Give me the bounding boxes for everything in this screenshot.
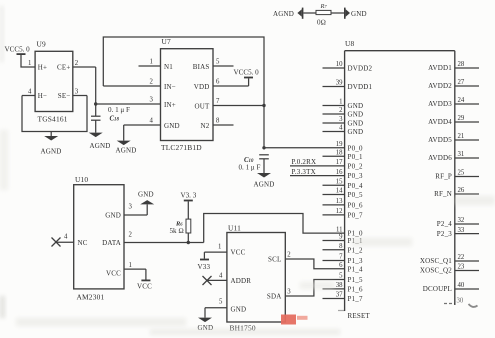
- pin 13 P0_6: [323, 198, 363, 209]
- svg-text:N2: N2: [201, 122, 210, 130]
- pin 22 XOSC_Q1: [420, 254, 479, 265]
- pin 18 P0_1: [323, 150, 363, 161]
- svg-text:10: 10: [336, 61, 343, 68]
- node junction CE+/IN+/C18: [94, 102, 97, 105]
- svg-text:NC: NC: [78, 239, 88, 247]
- wire: [303, 12, 316, 14]
- no-connect X (U10 pin4): [52, 238, 61, 247]
- label U9: [37, 40, 47, 49]
- svg-text:0. 1 μ F: 0. 1 μ F: [239, 164, 261, 172]
- svg-text:5: 5: [219, 299, 223, 306]
- svg-text:TGS4161: TGS4161: [38, 115, 68, 124]
- svg-text:4: 4: [219, 273, 223, 280]
- svg-text:8: 8: [339, 243, 343, 250]
- wire AGND drop: [50, 132, 52, 137]
- pin 1 VCC: [106, 262, 146, 278]
- no-connect X (U11 pin4): [203, 276, 212, 285]
- svg-text:P1_4: P1_4: [348, 265, 363, 273]
- svg-text:TLC271B1D: TLC271B1D: [161, 143, 202, 152]
- capacitor C10: [259, 155, 269, 173]
- svg-text:5k Ω: 5k Ω: [170, 227, 184, 235]
- pin 24 AVDD3: [428, 97, 479, 108]
- svg-text:U10: U10: [75, 175, 88, 184]
- svg-text:GND: GND: [138, 191, 154, 199]
- ground AGND (U7): [116, 141, 137, 155]
- svg-text:GND: GND: [348, 128, 364, 136]
- pin 39 DVDD1: [323, 80, 373, 91]
- svg-text:AGND: AGND: [90, 142, 111, 150]
- svg-text:DVDD2: DVDD2: [348, 65, 373, 73]
- svg-text:2: 2: [287, 252, 291, 259]
- net label GND: [351, 10, 367, 18]
- pin 1 H+: [28, 60, 47, 72]
- label AM2301: [77, 293, 105, 302]
- power V3.3 with pullup: [181, 192, 197, 202]
- svg-text:IN−: IN−: [164, 83, 176, 91]
- pin 5 GND (U11): [205, 299, 246, 314]
- svg-text:30: 30: [457, 298, 464, 305]
- IC U9 body: [35, 51, 73, 111]
- svg-text:32: 32: [458, 217, 465, 224]
- capacitor C18: [91, 116, 101, 132]
- pin 5 BIAS: [193, 59, 234, 71]
- svg-text:7: 7: [339, 254, 343, 261]
- pin 2 SCL: [268, 252, 291, 264]
- wire: [331, 12, 344, 14]
- svg-text:7: 7: [216, 98, 220, 105]
- svg-text:AVDD3: AVDD3: [428, 100, 452, 108]
- wire DATA to P1_0: [204, 214, 345, 243]
- svg-text:P2_4: P2_4: [437, 220, 452, 228]
- pin 4 ADDR: [207, 273, 251, 286]
- svg-text:1: 1: [129, 262, 132, 269]
- svg-text:P1_3: P1_3: [348, 257, 363, 265]
- IC U8 body (bottom faded in scan): [345, 51, 455, 311]
- IC U7 body: [161, 49, 214, 141]
- svg-text:AVDD5: AVDD5: [428, 136, 452, 144]
- svg-text:29: 29: [458, 115, 465, 122]
- svg-text:21: 21: [458, 133, 465, 140]
- svg-text:39: 39: [336, 80, 343, 87]
- value 5k ohm: [170, 227, 184, 235]
- svg-text:P1_6: P1_6: [348, 286, 363, 294]
- svg-text:27: 27: [458, 79, 465, 86]
- svg-text:P0_4: P0_4: [348, 182, 363, 190]
- pin 20 RESET (faded): [338, 311, 370, 321]
- svg-text:GND: GND: [231, 306, 247, 314]
- pin 8 N2 stub: [201, 118, 234, 130]
- svg-text:P1_5: P1_5: [348, 276, 363, 284]
- svg-text:XOSC_Q2: XOSC_Q2: [420, 267, 452, 275]
- pin 3 SE-: [58, 89, 87, 101]
- svg-text:23: 23: [458, 264, 465, 271]
- pin 26 RF_N: [434, 187, 479, 198]
- svg-text:RESET: RESET: [348, 312, 371, 320]
- pin 4 NC: [56, 234, 88, 247]
- pin 31 AVDD6: [428, 151, 479, 162]
- pin 7 OUT: [195, 98, 265, 110]
- net label P.3.3TX: [292, 168, 316, 176]
- pin 37 P1_7: [323, 292, 363, 303]
- svg-text:5: 5: [216, 59, 220, 66]
- pin 7 P1_3: [323, 254, 363, 265]
- svg-text:U11: U11: [228, 224, 241, 233]
- wire R6 to DATA: [187, 233, 189, 243]
- value 0.1uF (C18): [108, 106, 130, 114]
- label U10: [75, 175, 88, 184]
- label TGS4161: [38, 115, 68, 124]
- svg-text:OUT: OUT: [195, 102, 211, 110]
- node OUT junction: [262, 104, 265, 107]
- pin 14 P0_5: [323, 188, 363, 199]
- svg-text:24: 24: [458, 97, 465, 104]
- pin 9 P1_1: [323, 234, 363, 245]
- svg-text:19: 19: [336, 141, 343, 148]
- label TLC271B1D: [161, 143, 202, 152]
- ground GND (U10 pin3, points up): [138, 191, 154, 205]
- pin 2 IN-: [103, 79, 176, 91]
- svg-text:GND: GND: [351, 10, 367, 18]
- svg-text:0. 1 μ F: 0. 1 μ F: [108, 106, 130, 114]
- wire SDA to P1_5: [285, 280, 344, 297]
- scan smudge left edge: [0, 6, 5, 318]
- svg-text:IN+: IN+: [164, 101, 176, 109]
- label U7: [162, 37, 172, 46]
- pin 6 VDD: [194, 79, 249, 91]
- IC U11 body: [227, 233, 285, 323]
- svg-text:P1_7: P1_7: [348, 295, 363, 303]
- svg-text:ADDR: ADDR: [231, 277, 252, 285]
- wire to GND symbol: [146, 204, 148, 215]
- svg-text:CE+: CE+: [57, 64, 71, 72]
- svg-text:VCC5. 0: VCC5. 0: [234, 69, 260, 77]
- svg-text:22: 22: [458, 254, 465, 261]
- svg-text:5: 5: [339, 273, 343, 280]
- value 0 ohm: [317, 19, 326, 27]
- value 0.1uF (C10): [239, 164, 261, 172]
- svg-text:37: 37: [336, 292, 343, 299]
- resistor R7: [316, 10, 331, 14]
- svg-text:P0_6: P0_6: [348, 202, 363, 210]
- wire V3.3 to R6: [187, 201, 189, 219]
- svg-text:3: 3: [129, 204, 133, 211]
- net label AGND: [273, 10, 294, 18]
- svg-text:AM2301: AM2301: [77, 293, 105, 302]
- pin 5 P1_5: [339, 273, 363, 284]
- pin 27 AVDD2: [428, 79, 479, 90]
- pin 4 GND: [323, 125, 364, 136]
- svg-text:AVDD2: AVDD2: [428, 82, 452, 90]
- svg-text:RF_P: RF_P: [435, 173, 452, 181]
- ground GND (U11 pin5): [198, 308, 214, 332]
- svg-text:SDA: SDA: [267, 293, 282, 301]
- svg-text:VCC: VCC: [106, 270, 121, 278]
- svg-text:4: 4: [150, 118, 154, 125]
- pin 40 DCOUPL: [423, 282, 479, 293]
- node junction R6/DATA: [187, 241, 190, 244]
- wire H- loop: [22, 96, 87, 132]
- svg-text:0Ω: 0Ω: [317, 19, 326, 27]
- svg-text:DATA: DATA: [102, 239, 121, 247]
- pin 2 GND: [323, 107, 364, 118]
- pin 21 AVDD5: [428, 133, 479, 144]
- port AGND: [297, 8, 303, 19]
- svg-text:P0_5: P0_5: [348, 191, 363, 199]
- svg-text:6: 6: [216, 79, 220, 86]
- pin 3 IN+: [96, 97, 176, 109]
- svg-text:P0_7: P0_7: [348, 212, 363, 220]
- pin 30 (faded, dashed): [444, 298, 478, 307]
- svg-text:8: 8: [216, 118, 220, 125]
- pin 12 P0_7: [323, 208, 363, 219]
- ground AGND (C18): [89, 133, 111, 150]
- pin 15 P0_4: [323, 179, 363, 190]
- pin 19 P0_0: [336, 141, 363, 152]
- svg-text:P1_2: P1_2: [348, 246, 363, 254]
- svg-text:H−: H−: [38, 92, 47, 100]
- pin 4 GND: [124, 118, 180, 130]
- pin 17 P0_2: [290, 159, 363, 170]
- wire U7 gnd drop: [123, 125, 125, 141]
- wire CE+ down to IN+ node: [95, 67, 97, 116]
- pin 3 GND: [323, 116, 364, 127]
- svg-text:AGND: AGND: [116, 147, 137, 155]
- svg-text:AGND: AGND: [273, 10, 294, 18]
- svg-text:1: 1: [150, 59, 153, 66]
- power V33: [198, 252, 211, 271]
- wire VCC5.0 to pin1: [21, 55, 35, 67]
- svg-text:P0_1: P0_1: [348, 153, 363, 161]
- svg-text:25: 25: [458, 170, 465, 177]
- svg-text:P.3.3TX: P.3.3TX: [292, 168, 316, 176]
- svg-text:AVDD6: AVDD6: [428, 154, 452, 162]
- svg-text:1: 1: [28, 60, 31, 67]
- net label P.0.2RX: [292, 158, 317, 166]
- svg-text:14: 14: [336, 188, 343, 195]
- svg-text:6: 6: [339, 262, 343, 269]
- pin 2 CE+: [57, 60, 96, 72]
- svg-text:P.0.2RX: P.0.2RX: [292, 158, 317, 166]
- svg-text:3: 3: [150, 97, 154, 104]
- svg-text:P0_0: P0_0: [348, 144, 363, 152]
- label BH1750: [230, 324, 256, 333]
- wire feedback top: [103, 37, 264, 148]
- svg-text:AVDD4: AVDD4: [428, 118, 452, 126]
- svg-text:P0_3: P0_3: [348, 172, 363, 180]
- svg-text:3: 3: [75, 89, 79, 96]
- svg-text:GND: GND: [348, 120, 364, 128]
- pin 32 P2_4: [437, 217, 479, 228]
- pin 10 DVDD2: [323, 61, 373, 72]
- svg-text:13: 13: [336, 198, 343, 205]
- label R7: [320, 3, 328, 10]
- svg-text:VCC: VCC: [137, 283, 152, 291]
- svg-text:1: 1: [218, 244, 221, 251]
- pin 33 P2_3: [437, 227, 479, 238]
- svg-text:38: 38: [336, 282, 343, 289]
- pin 11 P1_0: [336, 226, 363, 237]
- svg-text:GND: GND: [164, 122, 180, 130]
- svg-text:SCL: SCL: [268, 256, 281, 264]
- pin 1 GND: [323, 99, 364, 110]
- svg-text:R7: R7: [320, 3, 328, 10]
- pin 1 VCC (U11): [204, 244, 245, 257]
- pin 25 RF_P: [435, 170, 479, 181]
- svg-text:12: 12: [336, 208, 343, 215]
- IC U10 body: [74, 185, 124, 289]
- svg-text:VDD: VDD: [194, 83, 210, 91]
- power VCC5.0 for U9: [5, 46, 31, 56]
- svg-text:11: 11: [336, 226, 343, 233]
- ground AGND (C10): [254, 173, 275, 189]
- svg-text:15: 15: [336, 179, 343, 186]
- svg-text:28: 28: [458, 61, 465, 68]
- pin 3 SDA: [267, 289, 291, 301]
- pin 1 N1 stub: [139, 59, 174, 71]
- label C10: [244, 157, 254, 164]
- svg-text:1: 1: [339, 99, 342, 106]
- svg-text:3: 3: [339, 116, 343, 123]
- svg-text:U8: U8: [345, 39, 355, 48]
- svg-text:9: 9: [339, 234, 343, 241]
- svg-text:V3. 3: V3. 3: [181, 192, 197, 200]
- resistor R6 5k: [186, 219, 191, 233]
- pin 38 P1_6: [323, 282, 363, 293]
- svg-text:17: 17: [336, 159, 343, 166]
- svg-text:AVDD1: AVDD1: [428, 64, 452, 72]
- scan ghost text bands: [0, 130, 495, 335]
- svg-text:AGND: AGND: [254, 181, 275, 189]
- pin 28 AVDD1: [428, 61, 479, 72]
- watermark red blob: [281, 315, 308, 325]
- svg-text:P2_3: P2_3: [437, 230, 452, 238]
- svg-text:2: 2: [339, 107, 343, 114]
- svg-text:3: 3: [287, 289, 291, 296]
- svg-text:H+: H+: [38, 64, 47, 72]
- wire SCL to P1_4: [285, 259, 344, 269]
- svg-text:C18: C18: [110, 116, 120, 123]
- svg-text:BIAS: BIAS: [193, 63, 210, 71]
- pin 16 P0_3: [290, 169, 363, 180]
- svg-text:31: 31: [458, 151, 465, 158]
- svg-text:RF_N: RF_N: [434, 190, 452, 198]
- svg-text:XOSC_Q1: XOSC_Q1: [420, 257, 452, 265]
- label R6: [175, 221, 183, 228]
- svg-text:SE−: SE−: [58, 92, 71, 100]
- pin 6 P1_4: [339, 262, 363, 273]
- ground AGND (U9): [41, 136, 62, 156]
- port GND: [344, 8, 350, 19]
- svg-text:16: 16: [336, 169, 343, 176]
- svg-text:DVDD1: DVDD1: [348, 83, 373, 91]
- power VCC (below U10 pin1): [137, 269, 152, 290]
- svg-text:V33: V33: [198, 263, 211, 271]
- label U8: [345, 39, 355, 48]
- svg-text:DCOUPL: DCOUPL: [423, 285, 452, 293]
- svg-text:U7: U7: [162, 37, 172, 46]
- svg-text:GND: GND: [105, 212, 121, 220]
- svg-text:N1: N1: [164, 63, 173, 71]
- svg-text:U9: U9: [37, 40, 47, 49]
- power VCC5.0 for U7: [234, 69, 260, 87]
- svg-text:GND: GND: [348, 111, 364, 119]
- pin 4 H-: [22, 89, 47, 101]
- svg-text:18: 18: [336, 150, 343, 157]
- svg-text:GND: GND: [348, 102, 364, 110]
- label C18: [110, 116, 120, 123]
- svg-text:P0_2: P0_2: [348, 163, 363, 171]
- svg-text:26: 26: [458, 187, 465, 194]
- svg-text:40: 40: [458, 282, 465, 289]
- svg-text:4: 4: [28, 89, 32, 96]
- label U11: [228, 224, 241, 233]
- pin 8 P1_2: [323, 243, 363, 254]
- svg-text:33: 33: [458, 227, 465, 234]
- pin 2 DATA: [102, 232, 204, 248]
- svg-text:4: 4: [339, 125, 343, 132]
- svg-text:4: 4: [64, 234, 68, 241]
- wire node to P0_0: [264, 147, 345, 149]
- svg-text:VCC: VCC: [231, 249, 246, 257]
- svg-text:AGND: AGND: [41, 148, 62, 156]
- pin 29 AVDD4: [428, 115, 479, 126]
- svg-text:2: 2: [129, 232, 133, 239]
- svg-text:2: 2: [75, 60, 79, 67]
- node C10 junction: [262, 146, 265, 149]
- svg-text:VCC5. 0: VCC5. 0: [5, 46, 31, 54]
- pin 23 XOSC_Q2: [420, 264, 479, 275]
- pin 3 GND: [105, 204, 147, 220]
- svg-text:2: 2: [150, 79, 154, 86]
